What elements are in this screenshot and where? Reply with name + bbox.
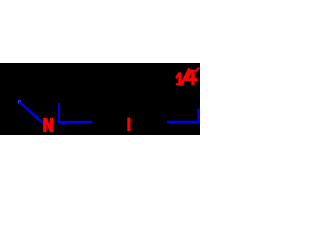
label 1/4 xyxy=(175,67,200,86)
digit 4 xyxy=(185,70,193,79)
digit 1 xyxy=(175,72,181,83)
atom N xyxy=(43,118,53,132)
prime tick xyxy=(195,67,200,73)
bond: vertical tick at right end xyxy=(197,109,199,123)
bond: vertical tick above corner xyxy=(58,103,60,122)
bond: horizontal right segment xyxy=(167,121,200,123)
junction blob under corner xyxy=(61,123,65,125)
band background xyxy=(0,63,200,135)
atom I xyxy=(127,118,130,132)
bond: horizontal from corner rightward xyxy=(58,121,93,123)
bond: diagonal from chain start to N xyxy=(19,102,43,123)
fraction slash xyxy=(181,68,190,85)
node dot (chain start) xyxy=(18,100,21,103)
